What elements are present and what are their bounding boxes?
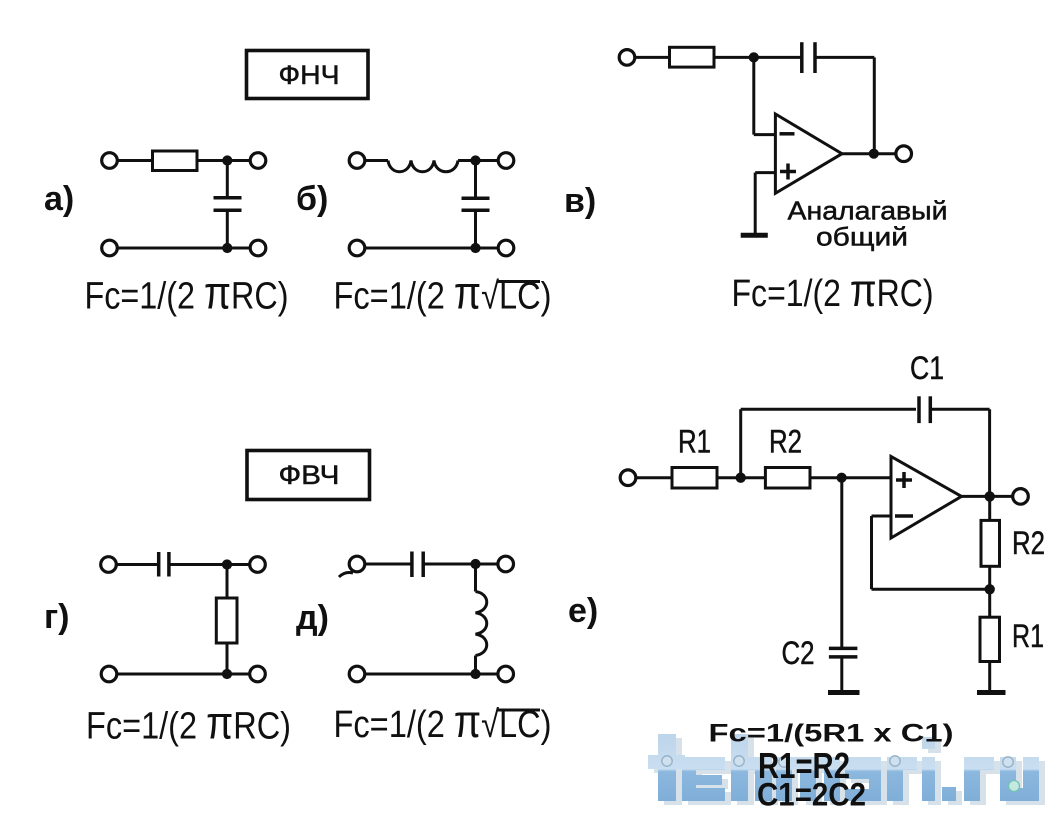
node (circuit b, top) xyxy=(470,155,480,165)
inductor L (circuit b) xyxy=(388,161,458,172)
wire xyxy=(226,565,229,599)
wire bottom rail (circuit b) xyxy=(365,247,499,250)
watermark screws xyxy=(662,756,1020,792)
wire xyxy=(988,662,991,692)
resistor R1 vertical (circuit e) xyxy=(980,617,1000,661)
wire xyxy=(170,563,251,566)
output terminal xyxy=(896,146,912,162)
wire bottom rail (circuit g) xyxy=(116,673,250,676)
wire xyxy=(424,563,498,566)
watermark shadow xyxy=(654,738,1045,805)
node (circuit v, output) xyxy=(869,149,879,159)
stray mark near d input xyxy=(339,573,353,578)
svg-text:C2: C2 xyxy=(782,635,815,671)
capacitor C (circuit d) xyxy=(412,552,423,578)
wire xyxy=(117,159,153,162)
node (circuit v, input junction) xyxy=(749,52,759,62)
op-amp U1 (circuit v) xyxy=(775,114,842,193)
svg-text:общий: общий xyxy=(816,222,908,252)
wire xyxy=(197,159,250,162)
resistor R1 (circuit e) xyxy=(672,468,717,489)
label analog common xyxy=(788,196,948,252)
terminal out-bottom xyxy=(250,666,266,682)
wire feedback top xyxy=(741,408,916,411)
wire xyxy=(116,563,158,566)
capacitor C (circuit g) xyxy=(159,552,169,577)
wire xyxy=(474,210,477,248)
wire minus loop horizontal xyxy=(872,515,892,518)
wire xyxy=(815,56,874,59)
svg-text:Fc=1/(5R1 x C1): Fc=1/(5R1 x C1) xyxy=(709,720,954,748)
svg-text:б): б) xyxy=(296,180,328,218)
capacitor C (circuit b) xyxy=(462,198,490,210)
node (circuit b, bottom) xyxy=(470,243,480,253)
resistor R2 (circuit e) xyxy=(765,468,810,489)
terminal out-top xyxy=(250,153,266,169)
wire bottom rail (circuit a) xyxy=(117,247,250,250)
wire xyxy=(226,210,229,248)
svg-text:е): е) xyxy=(568,592,598,630)
capacitor C2 (circuit e) xyxy=(829,648,858,657)
node (circuit g, bottom) xyxy=(222,669,232,679)
node (circuit a, bottom) xyxy=(222,243,232,253)
watermark fill xyxy=(648,734,1039,801)
wire inverting input horizontal xyxy=(754,133,776,136)
wire bottom rail (circuit d) xyxy=(365,673,499,676)
output terminal xyxy=(1013,489,1029,505)
resistor R vertical (circuit g) xyxy=(216,598,237,643)
svg-text:C1=2C2: C1=2C2 xyxy=(757,777,866,813)
capacitor C1 (circuit e) xyxy=(919,396,930,423)
wire output xyxy=(842,152,896,155)
terminal out-top xyxy=(250,557,266,573)
inductor L vertical (circuit d) xyxy=(476,592,487,656)
resistor R (circuit v) xyxy=(670,47,715,67)
wire xyxy=(840,657,843,691)
ground (circuit v) xyxy=(741,233,768,238)
circuit g: terminal in-top xyxy=(101,557,117,573)
wire xyxy=(988,496,991,520)
circuit a: terminal in-top xyxy=(102,153,118,169)
circuit v: input terminal xyxy=(619,50,635,66)
ground under C2 (circuit e) xyxy=(828,690,860,695)
resistor R2 vertical (circuit e) xyxy=(981,520,1000,566)
wire xyxy=(226,161,229,198)
terminal in-bottom xyxy=(349,666,365,682)
node (circuit e, output) xyxy=(985,491,995,501)
svg-text:C1: C1 xyxy=(910,350,944,386)
formula Fc=1/(2 pi sqrt LC) under b xyxy=(334,267,552,319)
wire xyxy=(474,161,477,198)
plus sign (circuit e) xyxy=(896,472,912,488)
box label FNCH (low-pass) xyxy=(247,51,369,99)
capacitor C (circuit a) xyxy=(214,198,242,210)
circuit d: terminal in-top xyxy=(349,556,365,572)
svg-text:R2: R2 xyxy=(769,424,802,460)
terminal out-bottom xyxy=(498,666,514,682)
svg-text:д): д) xyxy=(296,599,329,637)
wire xyxy=(226,643,229,674)
wire C2 vertical xyxy=(840,478,843,648)
svg-text:R1: R1 xyxy=(1012,618,1044,654)
terminal out-bottom xyxy=(250,240,266,256)
capacitor C (circuit v) xyxy=(802,42,815,73)
terminal out-top xyxy=(498,153,514,169)
wire non-inverting input xyxy=(755,171,776,174)
node (circuit a, top) xyxy=(222,155,232,165)
wire inverting input vertical xyxy=(752,57,755,134)
wire xyxy=(717,476,765,479)
terminal in-bottom xyxy=(102,240,118,256)
wire xyxy=(474,564,477,592)
wire xyxy=(636,476,673,479)
circuit b: terminal in-top xyxy=(349,153,365,169)
node (circuit g, top) xyxy=(222,559,232,569)
wire feedback left vertical xyxy=(739,409,742,477)
minus sign (circuit e) xyxy=(895,514,913,518)
wire feedback vertical xyxy=(873,57,876,153)
svg-text:ФВЧ: ФВЧ xyxy=(279,460,340,490)
wire xyxy=(714,56,802,59)
terminal out-bottom xyxy=(498,240,514,256)
ground under R1 (circuit e) xyxy=(977,690,1006,695)
resistor R (circuit a) xyxy=(153,151,198,171)
wire xyxy=(365,563,412,566)
wire xyxy=(474,656,477,675)
node (circuit d, top) xyxy=(470,559,480,569)
op-amp U1 (circuit e) xyxy=(891,456,962,538)
wire xyxy=(810,476,891,479)
svg-text:R1: R1 xyxy=(678,424,711,460)
watermark tehmari.ru xyxy=(0,0,1,1)
svg-text:г): г) xyxy=(44,598,69,636)
svg-text:а): а) xyxy=(44,180,74,218)
terminal out-top xyxy=(498,556,514,572)
node (circuit d, bottom) xyxy=(470,669,480,679)
minus sign (circuit v) xyxy=(780,132,795,136)
wire output xyxy=(962,495,1014,498)
wire minus loop bottom xyxy=(872,588,990,591)
wire minus loop vertical xyxy=(870,516,873,589)
wire xyxy=(635,56,670,59)
box label FVCH (high-pass) xyxy=(247,451,370,500)
circuit e: input terminal xyxy=(620,470,636,486)
wire feedback right vertical xyxy=(988,409,991,496)
node (circuit e, R divider) xyxy=(985,584,995,594)
terminal in-bottom xyxy=(349,240,365,256)
plus sign (circuit v) xyxy=(780,164,796,180)
svg-text:R2: R2 xyxy=(1012,525,1045,561)
svg-text:в): в) xyxy=(564,182,596,220)
wire xyxy=(365,159,389,162)
wire xyxy=(930,408,989,411)
svg-text:ФНЧ: ФНЧ xyxy=(279,60,340,90)
formula Fc=1/(2 pi sqrt LC) under d xyxy=(334,695,552,747)
node (circuit e, feedback junction) xyxy=(736,473,746,483)
wire to ground xyxy=(754,173,757,234)
wire xyxy=(988,566,991,617)
node (circuit e, C2 junction) xyxy=(837,473,847,483)
terminal in-bottom xyxy=(101,666,117,682)
wire xyxy=(458,159,499,162)
